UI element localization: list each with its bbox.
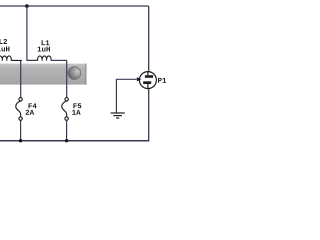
node junction dot bottom mid: [65, 139, 68, 142]
inductor L1: [38, 56, 52, 61]
value 1A of F5: [72, 110, 80, 115]
label L2: [0, 39, 7, 44]
wire right vertical upper: [148, 6, 150, 72]
value 1uH of L1: [38, 47, 50, 52]
label L1: [42, 40, 50, 45]
wire from fuse F4 to bottom rail: [20, 120, 22, 141]
wire bottom rail: [0, 140, 149, 142]
value 1uH of L2: [0, 47, 9, 52]
label F5: [73, 103, 81, 108]
inductor L2 (cut at left edge): [0, 56, 22, 61]
gray bus band: [0, 64, 87, 85]
node junction dot top: [25, 4, 29, 8]
wire drop from L2 lead to fuse F4: [20, 60, 22, 97]
wire riser from top junction to L1 left lead: [27, 6, 38, 60]
label P1: [158, 78, 166, 83]
arrow into P1: [137, 77, 141, 81]
ground symbol: [111, 113, 125, 118]
wire L1 right lead: [51, 59, 67, 61]
ball on band: [68, 67, 81, 80]
wire from ground to P1 arrow: [116, 79, 136, 112]
wire drop from L1 lead to fuse F5: [66, 60, 68, 97]
node junction dot bottom left: [19, 139, 22, 142]
wire right vertical lower: [148, 89, 150, 141]
wire from fuse F5 to bottom rail: [66, 120, 68, 141]
source P1: [139, 72, 156, 89]
fuse F5: [62, 98, 69, 121]
value 2A of F4: [26, 110, 34, 115]
wire top rail: [0, 5, 149, 7]
label F4: [29, 103, 37, 108]
fuse F4: [16, 98, 23, 121]
